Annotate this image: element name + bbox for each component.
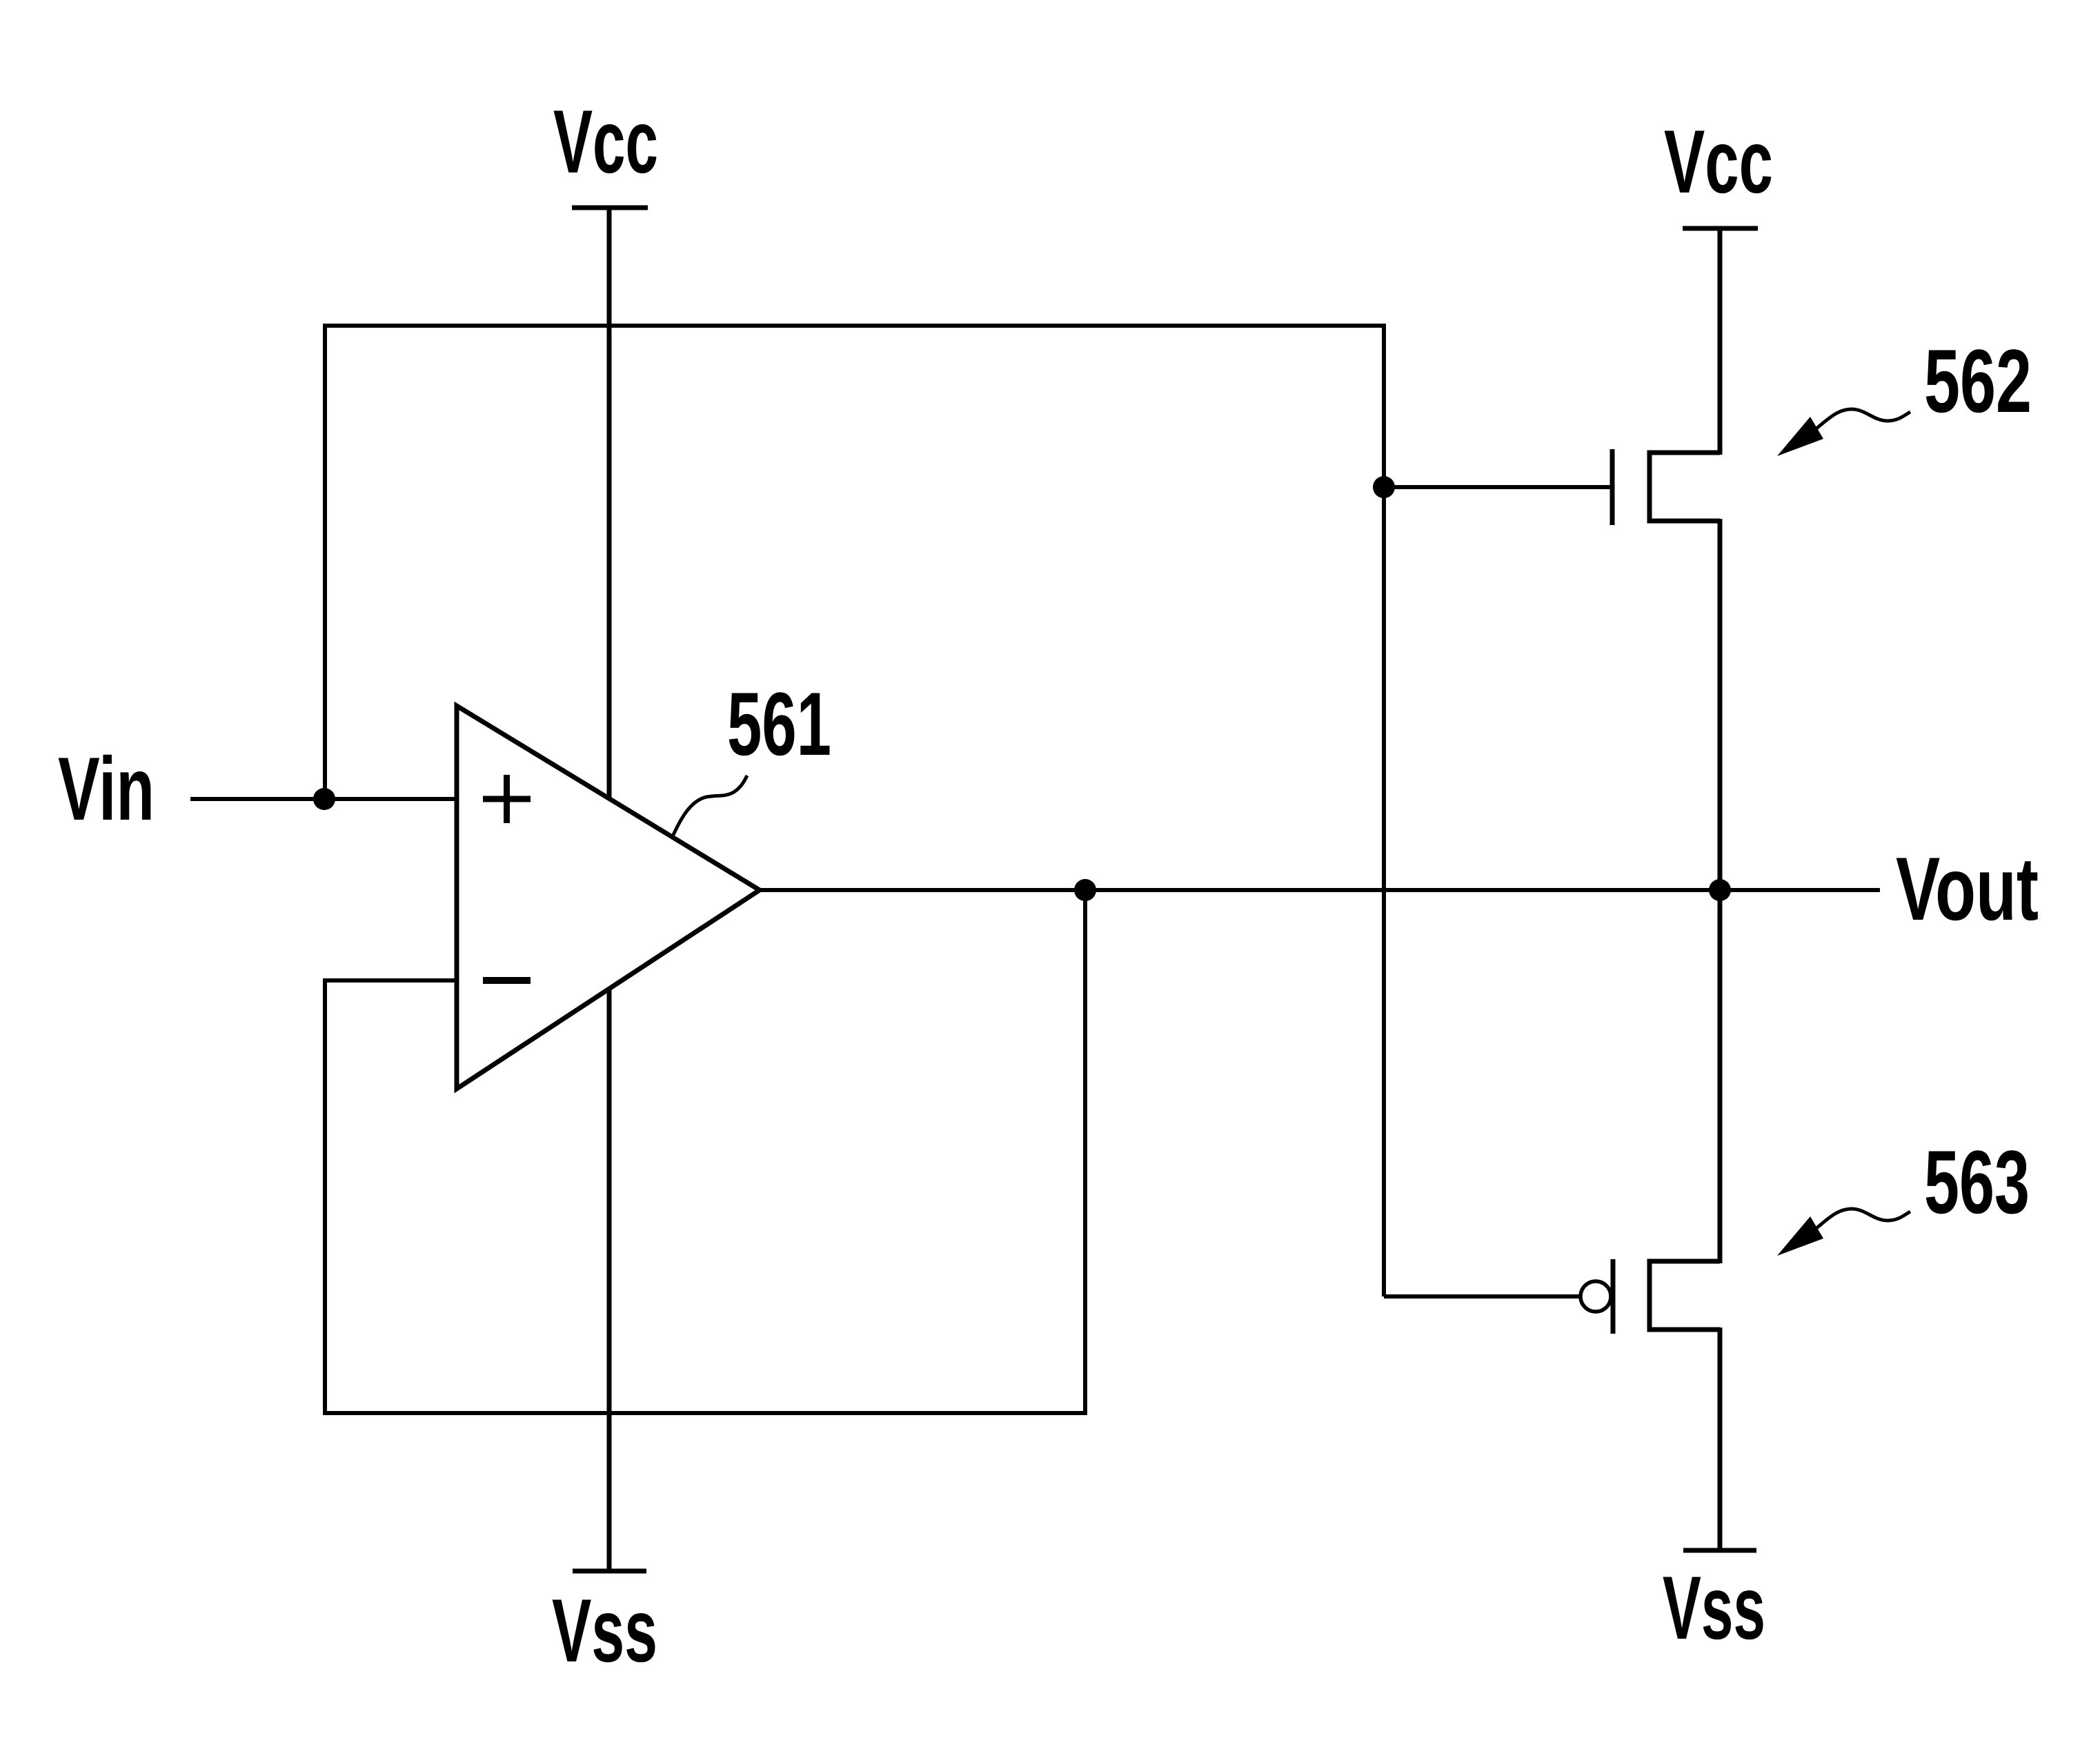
svg-text:Vss: Vss xyxy=(1663,1557,1765,1658)
leader squiggle for label 561 xyxy=(673,776,747,835)
wire: feedback bottom horizontal xyxy=(323,1411,1087,1415)
transistor Q562 drain arm xyxy=(1647,451,1721,455)
transistor Q563 gate bar xyxy=(1611,1259,1616,1334)
wire: feedback left vertical xyxy=(323,978,327,1415)
leader squiggle for label 562 xyxy=(1816,409,1910,428)
transistor Q562 gate bar xyxy=(1610,449,1615,525)
svg-text:562: 562 xyxy=(1924,330,2032,431)
power symbol: Vss bar (center) xyxy=(573,1569,646,1574)
svg-text:561: 561 xyxy=(727,673,831,774)
op-amp plus input symbol xyxy=(483,775,531,823)
svg-text:Vss: Vss xyxy=(552,1580,657,1681)
svg-text:563: 563 xyxy=(1924,1132,2030,1232)
wire: left vertical from Vin node up to top wire xyxy=(323,324,327,801)
wire: center supply column Vcc-to-Vss (hidden behind op-amp body) xyxy=(607,208,612,1571)
wire: right column Q563 source to Vss xyxy=(1718,1327,1723,1550)
wire: inverting input lead xyxy=(323,978,457,983)
transistor Q563 gate bubble xyxy=(1581,1281,1611,1312)
node: Q562 gate junction dot xyxy=(1373,476,1395,498)
wire: Vin input lead xyxy=(190,797,457,801)
transistor Q563 drain arm xyxy=(1647,1259,1721,1264)
wire: op-amp output to Vout xyxy=(760,888,1880,892)
op-amp minus input symbol xyxy=(483,977,531,984)
wire: feedback right vertical up to output xyxy=(1083,890,1087,1415)
wire: top horizontal run to right column xyxy=(323,324,1386,328)
wire: vertical drop x=2006 from top wire to Q563 gate level xyxy=(1382,324,1386,1296)
svg-text:Vcc: Vcc xyxy=(553,91,658,192)
transistor Q563 channel xyxy=(1647,1259,1652,1332)
op-amp U561 body xyxy=(457,706,760,1089)
node: Vout junction dot on right column xyxy=(1709,879,1731,901)
svg-text:Vout: Vout xyxy=(1896,838,2039,939)
transistor Q562 source arm xyxy=(1647,519,1721,524)
node: Vin junction dot xyxy=(313,788,335,810)
leader arrowhead for label 563 xyxy=(1777,1216,1823,1256)
node: feedback tap dot on output wire xyxy=(1074,879,1096,901)
wire: gate lead of Q563 to bubble xyxy=(1384,1294,1581,1299)
wire: right column Q562 source to Q563 drain (through Vout node) xyxy=(1718,519,1723,1263)
power symbol: Vcc bar (center) xyxy=(572,206,648,210)
transistor Q562 channel xyxy=(1647,451,1652,524)
svg-text:Vin: Vin xyxy=(58,738,155,839)
transistor Q563 source arm xyxy=(1647,1327,1721,1332)
power symbol: Vss bar (right) xyxy=(1683,1548,1756,1553)
svg-text:Vcc: Vcc xyxy=(1664,111,1773,212)
leader squiggle for label 563 xyxy=(1816,1209,1910,1228)
leader arrowhead for label 562 xyxy=(1777,417,1823,456)
power symbol: Vcc bar (right) xyxy=(1683,226,1758,231)
wire: right column Vcc to Q562 drain xyxy=(1718,228,1723,455)
wire: gate lead of Q562 xyxy=(1384,485,1612,489)
